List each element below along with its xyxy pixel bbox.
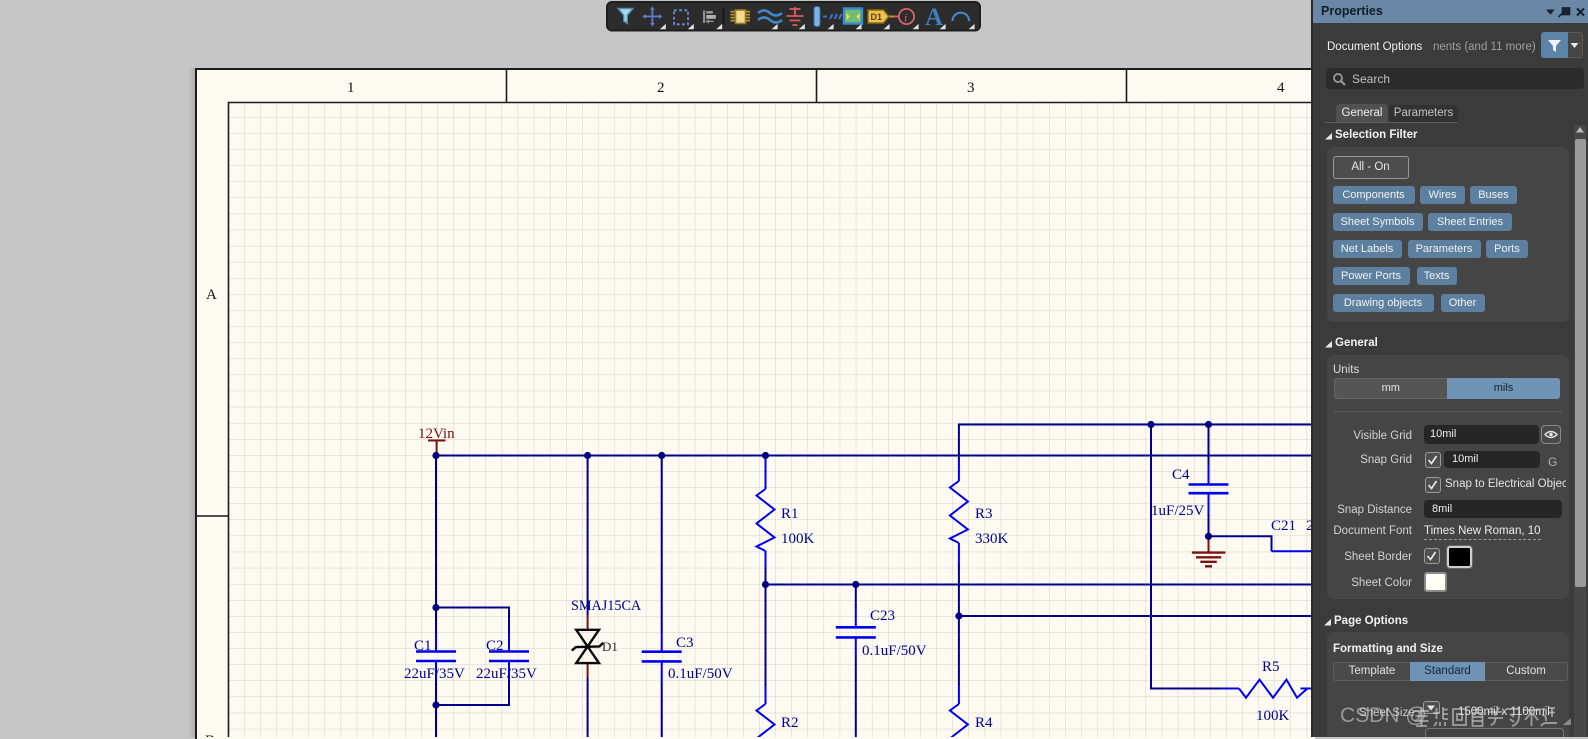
capacitor C23 <box>836 607 876 658</box>
junction dots <box>432 421 1212 709</box>
row divider A|B <box>195 515 228 517</box>
panel title bar <box>1313 0 1588 23</box>
icon harness/bus entry <box>814 7 842 27</box>
template/standard/custom segmented <box>1333 662 1410 681</box>
svg-text:1: 1 <box>347 80 355 96</box>
svg-text:R5: R5 <box>1262 659 1280 675</box>
units toggle mm / mils <box>1334 378 1448 399</box>
icon move (crosshair) <box>642 6 662 26</box>
properties panel <box>1311 0 1588 737</box>
CSDN watermark <box>1340 704 1427 728</box>
svg-text:A: A <box>206 287 217 303</box>
wire C4 vertical lower <box>1208 513 1210 536</box>
junction C23 top <box>852 581 859 588</box>
sheet left shadow <box>188 68 195 737</box>
resistor R3 <box>950 460 968 565</box>
wire R5 elbow <box>1151 425 1222 689</box>
wire C3 vertical upper <box>661 456 663 632</box>
sheet border row <box>1313 551 1412 563</box>
icon arc <box>953 13 970 21</box>
junction D1 top <box>584 452 591 459</box>
capacitor C3 <box>642 632 682 682</box>
sheet color row <box>1313 577 1412 589</box>
column divider 1|2 <box>506 68 508 102</box>
junction C2 top branch <box>432 604 439 611</box>
filter split button <box>1541 32 1568 58</box>
wire D1 vertical upper <box>587 456 589 616</box>
dropdown corner triangles <box>660 24 975 29</box>
snap grid row <box>1313 454 1412 466</box>
svg-text:12Vin: 12Vin <box>418 426 455 442</box>
toolbar background <box>607 2 980 31</box>
icon no-ERC <box>894 9 915 25</box>
capacitor C1 <box>416 632 456 681</box>
floating toolbar <box>600 0 992 34</box>
wire C23 vertical upper <box>855 585 857 609</box>
section header Selection Filter <box>1325 133 1333 141</box>
diode D1 TVS SMAJ15CA <box>572 616 604 678</box>
button Power Ports <box>1333 267 1410 285</box>
svg-text:2: 2 <box>657 80 665 96</box>
power port 12Vin <box>428 441 446 456</box>
junction C4 bottom / gnd <box>1205 533 1212 540</box>
sheet size row <box>1359 707 1415 719</box>
icon net label tag D1 <box>868 10 895 23</box>
svg-text:C23: C23 <box>870 608 895 624</box>
resistor R5 <box>1222 680 1308 698</box>
svg-text:A: A <box>925 4 943 31</box>
icon align <box>703 11 716 24</box>
icon wire (wavy) <box>758 11 782 23</box>
capacitor C4 <box>1189 465 1229 514</box>
resistor R4 <box>950 685 968 739</box>
wire bus y584 <box>766 584 1314 586</box>
icon power port (gnd) <box>787 7 804 25</box>
svg-text:330K: 330K <box>975 531 1009 547</box>
svg-text:R4: R4 <box>975 715 993 731</box>
section header Page Options <box>1324 619 1332 627</box>
sheet drawing area grid <box>229 103 1314 738</box>
wire top bus y424 <box>959 425 1313 461</box>
svg-text:100K: 100K <box>1256 708 1290 724</box>
svg-text:D1: D1 <box>871 12 883 22</box>
junction R1 top <box>762 452 769 459</box>
button Components <box>1333 186 1415 204</box>
document options header row <box>1327 41 1422 53</box>
resistor R1 <box>757 456 775 569</box>
document font row <box>1313 525 1412 537</box>
button Sheet Symbols <box>1333 213 1423 231</box>
svg-text:3: 3 <box>967 80 975 96</box>
svg-text:D1: D1 <box>602 639 618 654</box>
wire main bus y455 <box>436 455 1313 457</box>
wire R1-R2 vertical <box>765 567 767 686</box>
schematic sheet <box>195 68 1315 739</box>
visible grid row <box>1313 430 1412 442</box>
general card <box>1327 355 1569 599</box>
icon sheet symbol <box>844 9 862 24</box>
separator <box>1333 411 1563 412</box>
button All - On <box>1333 156 1409 179</box>
toolbar separator <box>723 8 725 25</box>
junction R1 bottom <box>762 581 769 588</box>
svg-text:C21: C21 <box>1271 518 1296 534</box>
junction C4 top <box>1205 421 1212 428</box>
svg-text:i: i <box>904 11 907 25</box>
snap distance row <box>1313 504 1412 516</box>
button Net Labels <box>1333 240 1402 258</box>
wire C3 vertical lower <box>661 682 663 738</box>
svg-text:100K: 100K <box>781 531 815 547</box>
scrollbar <box>1574 125 1586 737</box>
section header General <box>1325 341 1333 349</box>
button Wires <box>1420 186 1465 204</box>
button Drawing objects <box>1333 294 1434 312</box>
wire C21 net right segment <box>1272 550 1314 552</box>
svg-text:R1: R1 <box>781 506 799 522</box>
button Buses <box>1470 186 1517 204</box>
svg-text:C4: C4 <box>1172 467 1190 483</box>
wire C1 vertical upper <box>435 456 437 632</box>
wire R5 right stub <box>1301 688 1314 690</box>
button Texts <box>1417 267 1457 285</box>
wire C2 branch bottom <box>436 681 509 706</box>
icon selection rectangle <box>674 10 688 24</box>
svg-text:C2: C2 <box>486 638 504 654</box>
wire C4 vertical upper <box>1208 425 1210 465</box>
svg-text:C1: C1 <box>414 638 432 654</box>
selection filter card <box>1327 147 1569 322</box>
column divider 3|4 <box>1126 68 1128 102</box>
svg-text:1uF/25V: 1uF/25V <box>1151 503 1205 519</box>
wire C2 branch top <box>436 608 509 632</box>
svg-text:0.1uF/50V: 0.1uF/50V <box>862 643 927 659</box>
button Other <box>1441 294 1485 312</box>
bottom input stub <box>1425 728 1564 739</box>
button Sheet Entries <box>1428 213 1512 231</box>
svg-text:C3: C3 <box>676 635 694 651</box>
wire C21 net step <box>1209 536 1272 551</box>
junction 12Vin/C1 <box>432 452 439 459</box>
svg-text:R2: R2 <box>781 715 799 731</box>
units label <box>1333 364 1359 376</box>
wire C1 vertical lower <box>435 681 437 738</box>
wire bus y616 <box>959 615 1313 617</box>
svg-text:R3: R3 <box>975 506 993 522</box>
svg-text:22uF/35V: 22uF/35V <box>476 666 537 682</box>
icon place part (IC) <box>731 10 751 24</box>
button Parameters <box>1408 240 1481 258</box>
column divider 2|3 <box>816 68 818 102</box>
svg-text:SMAJ15CA: SMAJ15CA <box>571 598 642 614</box>
svg-text:B: B <box>205 733 215 737</box>
sheet inner border <box>229 103 1314 738</box>
wire R3-R4 vertical <box>958 564 960 685</box>
formatting and size label <box>1333 643 1443 655</box>
button Ports <box>1486 240 1528 258</box>
svg-text:4: 4 <box>1277 80 1285 96</box>
ground symbol <box>1192 536 1226 566</box>
icon filter (funnel) <box>618 9 633 24</box>
wire D1 vertical lower <box>587 678 589 738</box>
junction C2 bottom branch <box>432 701 439 708</box>
search box <box>1326 68 1584 89</box>
wire C23 vertical lower <box>855 658 857 738</box>
tab General (active) <box>1336 104 1388 122</box>
snap to electrical objects <box>1425 477 1441 493</box>
capacitor C2 <box>489 632 529 681</box>
tab Parameters <box>1389 105 1458 122</box>
junction R3 bottom <box>955 612 962 619</box>
svg-text:0.1uF/50V: 0.1uF/50V <box>668 666 733 682</box>
page options card <box>1327 632 1569 737</box>
junction C3 top <box>658 452 665 459</box>
junction R5 column top <box>1147 421 1154 428</box>
resistor R2 <box>757 686 775 739</box>
svg-text:22uF/35V: 22uF/35V <box>404 666 465 682</box>
